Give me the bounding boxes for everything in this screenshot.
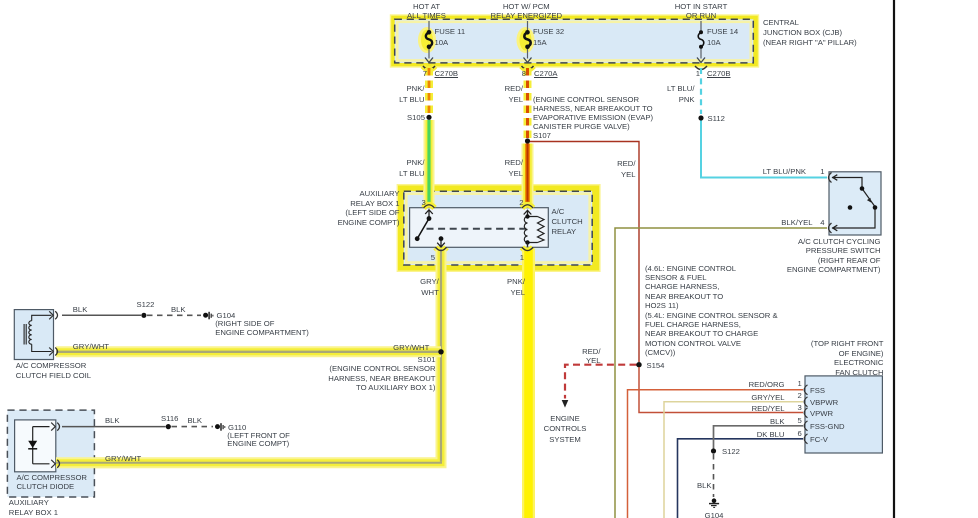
relay pin 1 cup redraw over wire: [522, 247, 533, 250]
connector cup pin8 C270A with highlight: [522, 66, 534, 70]
relay actuation dashed line: [427, 228, 528, 230]
relay pin 1 cup (highlighted): [522, 247, 533, 250]
node S122 (fan): [711, 448, 716, 453]
wire LT BLU/PNK dashed C270B to S112: [700, 68, 702, 114]
wire RED/YEL solid S107 to relay pin2 (highlighted): [522, 144, 534, 208]
fuse F11 highlight blob: [418, 27, 436, 53]
wire RED/ORG fan clutch pin1 left and down: [628, 390, 804, 518]
A/C compressor clutch diode inner box: [15, 420, 56, 472]
node labels and wire texts: [407, 2, 446, 21]
fuse F32 highlight blob: [517, 27, 535, 53]
wire fuse11 vertical in box: [428, 21, 430, 59]
diode pin (top) arrow and cup: [51, 423, 55, 431]
wire BLK dashed S122 to G104: [147, 314, 201, 316]
pressure switch pin1 cup: [829, 173, 832, 183]
wire BLK dashed S122 to G104: [713, 454, 715, 497]
arrow below fuse11: [425, 58, 433, 63]
node S112: [698, 115, 703, 120]
wire RED/YEL overlay into pin2 (over relay box): [522, 183, 534, 207]
relay coil: [524, 210, 544, 242]
wire BLK/YEL pressure switch pin4 left and down: [615, 228, 827, 518]
relay pin 3 cup (highlighted): [424, 205, 435, 208]
electronic fan clutch box: [805, 376, 882, 453]
node S105: [426, 115, 431, 120]
wire GRY/WHT diode pin to corner (overlay over aux box): [56, 457, 130, 468]
relay pin 2 cup (highlighted): [522, 205, 533, 208]
diode pin (bottom) arrow and cup: [51, 460, 55, 468]
relay pin 5 contact and arrow down: [437, 236, 445, 247]
fuse F32 symbol: [524, 30, 530, 49]
relay inner box: [410, 208, 549, 248]
relay pin 5 cup (highlighted): [436, 247, 447, 250]
wire GRY/WHT field coil pin1 to S101 (highlighted): [56, 346, 441, 357]
relay switch: pin3 arrow up, contacts and blade: [415, 210, 433, 241]
wire PNK/LT BLU solid S105 to relay pin3 (highlighted green): [424, 120, 435, 207]
node S101: [438, 349, 443, 354]
A/C compressor clutch field coil box: [14, 310, 53, 360]
wire RED/YEL dashed S154 to engine controls system arrow: [565, 365, 637, 399]
wire RED/YEL branch S107 right and down to S154: [530, 142, 639, 363]
node S122 (field coil): [141, 313, 146, 318]
wire fuse32 vertical in box: [527, 21, 529, 59]
diode symbol: [33, 427, 50, 464]
ground G104 (right side of engine compartment): [203, 312, 213, 320]
fuse F11 symbol: [426, 30, 432, 49]
wire RED/YEL S154 down and right to fan clutch pin3 VPWR: [639, 367, 803, 413]
fuse F14 symbol: [698, 30, 704, 49]
wire LT BLU/PNK S112 to pressure switch pin1: [701, 121, 827, 178]
wire GRY/YEL fan clutch pin2 left and down: [664, 402, 803, 518]
A/C clutch cycling pressure switch box: [829, 172, 881, 235]
node S107: [525, 138, 530, 143]
field coil pin2 arrow and cup: [49, 311, 53, 319]
arrow below fuse14: [697, 58, 705, 63]
wire DK BLU fan clutch pin6 left and down: [678, 439, 804, 518]
ground G110 (left front of engine compt): [215, 423, 225, 431]
auxiliary relay box 1 dashed box (diode): [7, 410, 94, 497]
wire RED/YEL dashed C270A to S107 (highlighted): [524, 68, 532, 138]
node S116: [166, 424, 171, 429]
connector cup pin1 C270B: [695, 66, 707, 70]
field coil pin1 arrow and cup: [49, 348, 53, 356]
wire BLK fan clutch pin5 left and down to S122: [714, 426, 804, 449]
field coil symbol: [24, 315, 51, 351]
arrow to engine controls system: [562, 400, 569, 408]
diode bottom pin cup redraw: [57, 460, 59, 468]
relay pin1 stub to cup: [527, 243, 529, 247]
relay pin 5 cup redraw over wire: [436, 247, 447, 250]
connector cup pin7 C270B with highlight: [423, 66, 435, 70]
wire PNK/YEL relay pin1 down (highlighted solid yellow): [522, 249, 535, 518]
auxiliary relay box 1 (relay) highlighted dashed box: [397, 184, 601, 272]
node S154: [636, 362, 641, 367]
pressure switch internal contacts: [832, 175, 875, 231]
central junction box CJB highlighted box: [390, 14, 759, 67]
arrow below fuse32: [524, 58, 532, 63]
pressure switch pin4 cup: [829, 223, 832, 233]
wire BLK diode to S116: [62, 426, 166, 428]
wire BLK dashed S116 to G110: [172, 426, 214, 428]
page border line: [893, 0, 895, 518]
wire fuse14 vertical in box: [700, 21, 702, 59]
wire BLK field coil pin2 to S122: [62, 314, 141, 316]
wire PNK/LT BLU overlay into pin3 (over relay box): [424, 183, 435, 207]
fan clutch pin cups 1,2,3,5,6: [804, 385, 807, 444]
wire GRY/WHT relay pin5 down to S101 and corner to diode (highlighted): [54, 249, 442, 463]
ground G104 (bottom): [709, 498, 719, 507]
wire PNK/LT BLU dashed C270B to S105 (highlighted): [425, 68, 433, 114]
